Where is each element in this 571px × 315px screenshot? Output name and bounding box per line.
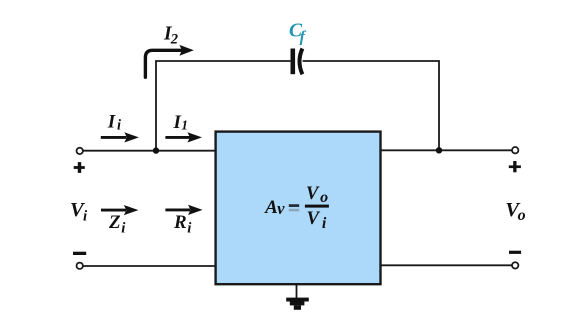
svg-text:1: 1 — [181, 117, 188, 132]
svg-text:V: V — [307, 209, 321, 229]
svg-text:2: 2 — [170, 31, 178, 47]
svg-text:i: i — [187, 220, 192, 236]
svg-text:i: i — [117, 118, 121, 134]
svg-text:o: o — [320, 189, 328, 206]
svg-text:f: f — [300, 28, 307, 45]
svg-text:o: o — [518, 207, 526, 224]
svg-text:A: A — [264, 197, 278, 218]
svg-text:Z: Z — [108, 212, 121, 233]
svg-text:i: i — [121, 220, 126, 236]
svg-text:v: v — [277, 199, 285, 218]
svg-text:i: i — [83, 208, 88, 224]
svg-text:R: R — [173, 212, 187, 233]
svg-text:I: I — [173, 112, 182, 133]
svg-text:i: i — [322, 215, 327, 232]
svg-text:I: I — [107, 112, 116, 133]
svg-text:V: V — [306, 184, 320, 204]
